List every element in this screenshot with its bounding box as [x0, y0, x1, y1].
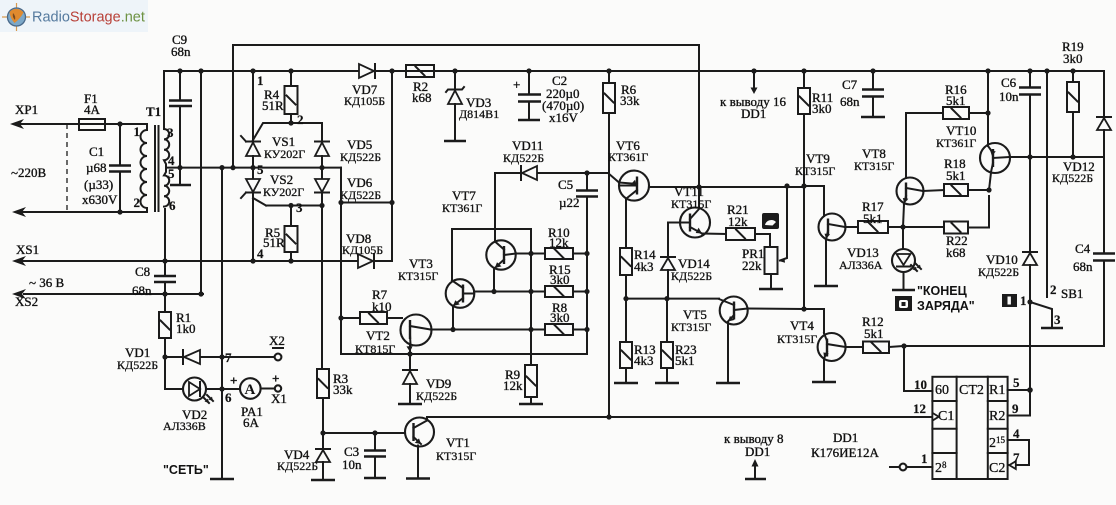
diode VD7	[344, 64, 385, 108]
svg-text:КД105Б: КД105Б	[342, 243, 383, 257]
svg-text:5: 5	[1013, 375, 1020, 390]
svg-text:КУ202Г: КУ202Г	[263, 185, 304, 199]
svg-text:КД105Б: КД105Б	[344, 94, 385, 108]
svg-text:КД522Б: КД522Б	[416, 389, 457, 403]
svg-text:VT4: VT4	[790, 318, 814, 333]
wire top rail 1	[233, 45, 699, 208]
transistor VT6	[608, 138, 804, 248]
transistor VT2	[355, 315, 432, 357]
resistor R16	[943, 82, 991, 119]
svg-text:5k1: 5k1	[946, 168, 966, 183]
svg-text:4k3: 4k3	[634, 259, 654, 274]
diode VD4	[277, 398, 335, 480]
resistor R7	[338, 287, 402, 324]
svg-text:C8: C8	[135, 264, 150, 279]
svg-text:µ22: µ22	[559, 195, 580, 210]
resistor R11	[798, 68, 833, 309]
svg-text:C6: C6	[1001, 75, 1017, 90]
resistor R9	[503, 365, 543, 404]
svg-text:12: 12	[913, 401, 926, 416]
svg-text:КТ315Г: КТ315Г	[671, 197, 711, 211]
svg-text:~220В: ~220В	[11, 165, 47, 180]
wire XS1 row node4	[22, 260, 392, 262]
switch SB1	[1020, 68, 1083, 328]
label КОНЕЦ ЗАРЯДА	[917, 284, 975, 313]
svg-text:R1: R1	[989, 383, 1005, 398]
svg-text:Д814В1: Д814В1	[459, 107, 499, 121]
pin 7 dynamic input C2	[1008, 450, 1029, 469]
svg-text:3k0: 3k0	[550, 272, 570, 287]
svg-text:"СЕТЬ": "СЕТЬ"	[163, 463, 209, 477]
end-of-charge icon	[895, 296, 912, 311]
terminal X1	[271, 371, 287, 406]
capacitor C7	[840, 68, 885, 117]
svg-text:33k: 33k	[620, 93, 640, 108]
resistor R15	[545, 262, 587, 297]
svg-text:10n: 10n	[999, 89, 1019, 104]
resistor R3	[317, 369, 353, 398]
svg-text:АЛ336В: АЛ336В	[163, 419, 206, 433]
resistor R8	[528, 300, 587, 335]
thyristor VS1	[241, 134, 305, 168]
svg-text:51R: 51R	[262, 98, 284, 113]
diode VD6	[315, 168, 381, 206]
svg-text:X1: X1	[271, 391, 287, 406]
svg-text:DD1: DD1	[741, 106, 766, 121]
svg-text:60: 60	[935, 383, 949, 398]
fuse F1	[79, 91, 105, 130]
node 1 vertical (VS anode column)	[252, 71, 254, 141]
wire VT1 collector row to DD1 pin12	[427, 416, 932, 418]
svg-text:x16V: x16V	[549, 110, 579, 125]
adjustment icon	[762, 213, 779, 229]
transistor VT3	[398, 229, 474, 332]
ground below node 6	[210, 478, 234, 480]
svg-text:КТ361Г: КТ361Г	[442, 201, 482, 215]
svg-text:3: 3	[1054, 312, 1061, 327]
wire gate branch node5	[341, 202, 392, 204]
resistor R17	[845, 199, 903, 233]
transistor VT8	[854, 113, 943, 230]
svg-text:C2: C2	[989, 461, 1005, 476]
transistor VT9	[795, 151, 846, 286]
svg-text:2: 2	[1050, 282, 1057, 297]
svg-text:4: 4	[257, 246, 264, 261]
svg-text:КУ202Г: КУ202Г	[264, 147, 305, 161]
svg-text:k68: k68	[412, 90, 432, 105]
wire VD8 cathode riser	[391, 71, 393, 261]
resistor R4	[262, 68, 298, 123]
capacitor C3	[342, 430, 386, 478]
wire VT5 collector row	[748, 309, 825, 334]
transistor VT10	[936, 68, 1010, 190]
svg-text:A: A	[245, 382, 256, 398]
IC DD1 K176IE12A counter	[811, 377, 1008, 479]
wire SB1 pin1 down to DD1 R pins	[1029, 302, 1031, 390]
potentiometer PR1	[742, 183, 790, 289]
svg-text:XS1: XS1	[16, 242, 39, 257]
svg-text:RadioStorage.net: RadioStorage.net	[32, 10, 145, 26]
svg-text:ЗАРЯДА": ЗАРЯДА"	[917, 299, 975, 313]
resistor R13	[614, 299, 656, 383]
wire node5 drop to R7 row	[340, 168, 342, 354]
diode VD9	[398, 354, 457, 404]
transformer T1	[134, 104, 177, 213]
pin 1 terminal	[890, 451, 932, 470]
svg-text:1: 1	[257, 73, 264, 88]
wire R10 row (VT7 collector load)	[516, 253, 545, 255]
svg-text:1: 1	[134, 124, 141, 139]
svg-text:C4: C4	[1075, 241, 1091, 256]
svg-text:68n: 68n	[132, 283, 152, 298]
svg-text:X2: X2	[269, 333, 285, 348]
node 2 row	[253, 123, 322, 141]
wire top link VT3-collector	[452, 229, 531, 365]
terminal X2	[222, 333, 285, 360]
svg-text:68n: 68n	[1073, 259, 1093, 274]
svg-text:КТ315Г: КТ315Г	[854, 159, 894, 173]
wire node7/6 vertical	[221, 168, 223, 478]
svg-text:6A: 6A	[243, 415, 260, 430]
svg-text:68n: 68n	[840, 94, 860, 109]
wire XP1 bottom	[22, 208, 147, 212]
svg-text:КД522Б: КД522Б	[340, 150, 381, 164]
label to DD1 pin 8 with ground	[724, 431, 783, 479]
svg-text:~ 36 В: ~ 36 В	[29, 275, 65, 290]
wire XP1 top	[20, 124, 147, 130]
node 5 dot	[250, 165, 255, 170]
svg-text:+: +	[513, 77, 520, 92]
svg-text:3k0: 3k0	[550, 310, 570, 325]
svg-text:3: 3	[167, 125, 174, 140]
svg-text:+: +	[272, 371, 279, 386]
svg-text:XP1: XP1	[15, 102, 38, 117]
svg-text:1k0: 1k0	[176, 321, 196, 336]
transistor VT5	[671, 297, 748, 384]
transistor VT11	[668, 184, 711, 238]
wire tap4/5 node-5 row	[166, 167, 341, 169]
thyristor VS2	[241, 168, 304, 264]
transistor VT4	[777, 318, 846, 382]
capacitor C6	[999, 68, 1041, 159]
transistor VT1	[405, 417, 476, 479]
dashed plug boundary	[66, 124, 68, 212]
svg-text:C1: C1	[89, 144, 104, 159]
svg-text:k68: k68	[946, 245, 966, 260]
resistor R21	[702, 202, 770, 247]
svg-text:33k: 33k	[333, 382, 353, 397]
svg-text:КТ361Г: КТ361Г	[608, 150, 648, 164]
resistor R19	[1062, 39, 1084, 160]
pin 12 dynamic input marker	[913, 401, 939, 421]
svg-text:9: 9	[1012, 401, 1019, 416]
svg-text:К176ИЕ12А: К176ИЕ12А	[811, 445, 880, 460]
svg-text:КД522Б: КД522Б	[503, 151, 544, 165]
svg-text:10n: 10n	[342, 457, 362, 472]
svg-text:T1: T1	[146, 104, 161, 119]
svg-text:VT2: VT2	[366, 328, 390, 343]
svg-text:АЛ336А: АЛ336А	[839, 258, 883, 272]
diode VD11	[495, 138, 619, 242]
svg-text:12k: 12k	[728, 214, 748, 229]
svg-text:7: 7	[1013, 450, 1020, 465]
wire rail 2	[164, 70, 1104, 72]
diode VD8	[342, 231, 383, 268]
svg-text:КТ315Г: КТ315Г	[777, 332, 817, 346]
svg-text:КД522Б: КД522Б	[978, 265, 1019, 279]
svg-text:4k3: 4k3	[634, 353, 654, 368]
wire VD6 column down to R3	[321, 206, 323, 370]
wire tap3 drop to XS2	[200, 71, 202, 294]
connector XP1	[10, 102, 47, 217]
svg-text:CT2: CT2	[959, 383, 984, 398]
diode VD14	[661, 223, 712, 299]
svg-text:µ68: µ68	[86, 160, 107, 175]
wire R12 node to DD1	[904, 346, 932, 391]
svg-text:1: 1	[1020, 293, 1027, 308]
svg-text:КД522Б: КД522Б	[340, 188, 381, 202]
svg-text:10: 10	[914, 377, 927, 392]
svg-text:4: 4	[1013, 426, 1020, 441]
svg-text:5k1: 5k1	[675, 353, 695, 368]
svg-text:6: 6	[225, 390, 232, 405]
capacitor C9	[169, 32, 192, 170]
svg-text:КД522Б: КД522Б	[117, 358, 158, 372]
svg-text:6: 6	[169, 198, 176, 213]
pin 9	[1008, 390, 1030, 416]
wire VD14 row	[626, 298, 719, 300]
wire XS2 row	[24, 293, 203, 295]
capacitor C1	[82, 121, 131, 214]
svg-text:R2: R2	[989, 409, 1005, 424]
zener VD3	[444, 68, 499, 141]
svg-text:x630V: x630V	[82, 192, 118, 207]
wire R8 row (VT2 collector)	[432, 329, 545, 331]
svg-text:DD1: DD1	[833, 430, 858, 445]
svg-text:12k: 12k	[549, 235, 569, 250]
svg-text:КД522Б: КД522Б	[671, 269, 712, 283]
svg-text:КТ315Г: КТ315Г	[398, 269, 438, 283]
svg-text:3: 3	[296, 200, 303, 215]
svg-text:КД522Б: КД522Б	[277, 459, 318, 473]
wire R15 row (VT3 base)	[474, 291, 545, 293]
svg-text:22k: 22k	[742, 258, 762, 273]
wire tap3 to rail2	[163, 71, 165, 129]
wire VT10 emitter row	[1010, 156, 1105, 158]
diode VD1	[117, 345, 222, 372]
capacitor C5	[558, 170, 598, 354]
svg-text:VT1: VT1	[446, 435, 470, 450]
LED VD13	[839, 227, 921, 290]
diode VD5	[315, 137, 381, 168]
svg-text:SB1: SB1	[1061, 286, 1083, 301]
svg-text:DD1: DD1	[745, 444, 770, 459]
resistor R6	[603, 68, 640, 419]
diode VD10	[978, 157, 1037, 302]
svg-text:k10: k10	[372, 299, 392, 314]
svg-text:12k: 12k	[503, 378, 523, 393]
wire C3 row	[323, 432, 405, 434]
wire emitter row y354	[341, 353, 587, 355]
svg-text:КТ361Г: КТ361Г	[936, 136, 976, 150]
svg-text:5: 5	[257, 162, 264, 177]
resistor R10	[545, 225, 587, 259]
resistor R23	[655, 299, 697, 383]
svg-text:C7: C7	[842, 77, 858, 92]
resistor R18	[923, 156, 992, 196]
logo RadioStorage.net	[0, 0, 148, 32]
capacitor C8	[132, 209, 176, 312]
svg-text:C5: C5	[558, 177, 573, 192]
switch icon	[1002, 294, 1017, 307]
svg-text:КД522Б: КД522Б	[1052, 171, 1093, 185]
svg-text:2: 2	[297, 112, 304, 127]
svg-text:51R: 51R	[263, 235, 285, 250]
capacitor C4	[904, 157, 1115, 346]
wire to DD1 pin16	[720, 68, 786, 121]
svg-text:КТ315Г: КТ315Г	[671, 320, 711, 334]
svg-text:5k1: 5k1	[864, 326, 884, 341]
resistor R1	[159, 310, 196, 338]
svg-text:3k0: 3k0	[1063, 51, 1083, 66]
resistor R22	[903, 196, 989, 260]
svg-text:(µ33): (µ33)	[84, 177, 113, 192]
pin 4	[1008, 426, 1029, 465]
svg-text:"КОНЕЦ: "КОНЕЦ	[917, 284, 968, 298]
svg-text:2: 2	[134, 195, 141, 210]
svg-text:5k1: 5k1	[863, 211, 883, 226]
transistor VT7	[442, 188, 516, 292]
svg-text:3k0: 3k0	[812, 101, 832, 116]
resistor R2	[406, 65, 434, 105]
svg-text:КТ315Г: КТ315Г	[795, 164, 835, 178]
resistor R5	[257, 206, 298, 264]
svg-text:5k1: 5k1	[946, 93, 966, 108]
node 3 row	[266, 205, 322, 207]
diode VD12	[1052, 71, 1111, 185]
svg-text:4A: 4A	[84, 102, 101, 117]
ground under C9	[179, 168, 181, 184]
resistor R12	[846, 314, 905, 353]
connector XS1	[12, 242, 65, 309]
resistor R14	[620, 247, 656, 299]
wire R1 to VD1 row	[164, 338, 166, 357]
svg-text:C1: C1	[938, 409, 954, 424]
LED VD2	[163, 357, 222, 477]
svg-text:+: +	[230, 373, 237, 388]
pin 5	[1008, 375, 1033, 393]
svg-text:КТ315Г: КТ315Г	[436, 449, 476, 463]
ammeter PA1	[222, 373, 275, 430]
svg-text:68n: 68n	[171, 44, 191, 59]
svg-text:1: 1	[921, 451, 928, 466]
capacitor C2	[513, 68, 584, 125]
